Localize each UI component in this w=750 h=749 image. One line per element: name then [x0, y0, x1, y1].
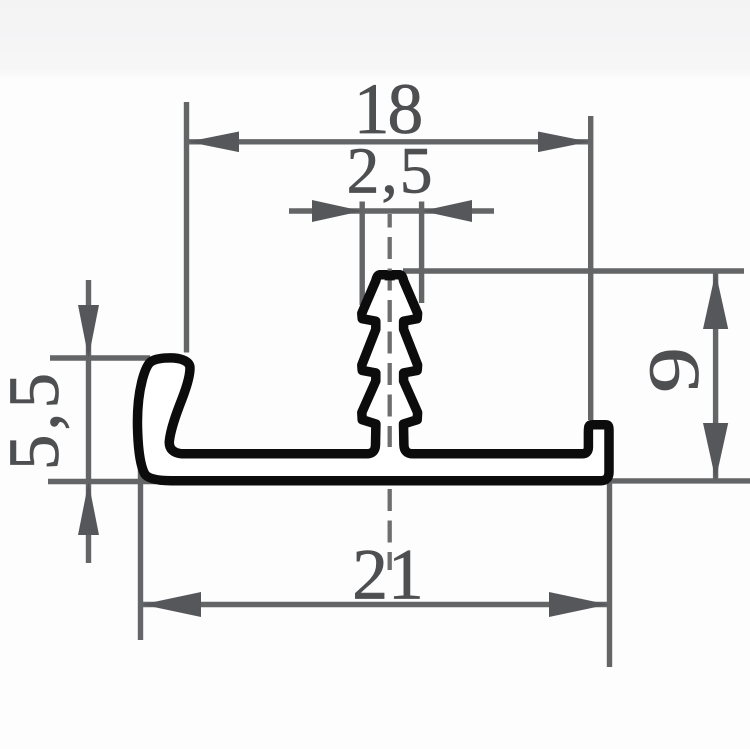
dimension line 2,5	[289, 208, 494, 213]
svg-text:9: 9	[635, 347, 714, 393]
arrowhead right of dim 21	[549, 592, 608, 617]
dimension line 21	[141, 602, 610, 607]
arrowhead right of dim 2,5	[422, 200, 472, 222]
extension line right of dim 18	[588, 116, 593, 420]
arrowhead left of dim 18	[188, 132, 239, 153]
arrowhead bottom of dim 5,5	[78, 482, 99, 535]
svg-text:2,5: 2,5	[347, 136, 435, 208]
dimension line 18	[187, 139, 591, 144]
extension line left of dim 21	[138, 466, 143, 640]
arrowhead top of dim 9	[703, 272, 728, 329]
reference line bottom of dim 5,5	[48, 479, 156, 484]
patch: keep profile cap solid where centerline crosses	[385, 271, 395, 281]
extension line right of dim 21	[607, 481, 612, 667]
svg-text:21: 21	[352, 536, 424, 615]
extension line left of dim 18	[184, 102, 189, 353]
reference line top of dim 5,5	[50, 355, 150, 360]
dimension line 5,5	[86, 280, 91, 563]
extension line left of dim 2,5	[360, 202, 365, 306]
centerline (dashed axis, upper part)	[388, 214, 392, 447]
arrowhead bottom of dim 9	[703, 423, 728, 480]
arrowhead left of dim 2,5	[312, 200, 362, 222]
reference line bottom of dim 9	[607, 478, 750, 483]
arrowhead left of dim 21	[142, 592, 201, 617]
dimension line 9	[713, 271, 718, 481]
svg-text:5,5: 5,5	[0, 369, 74, 470]
arrowhead right of dim 18	[538, 132, 589, 153]
centerline (dashed axis, lower part)	[388, 489, 392, 570]
arrowhead top of dim 5,5	[78, 305, 99, 358]
reference line top of dim 9	[403, 268, 744, 273]
profile outline (aluminium extrusion cross-section)	[137, 275, 609, 481]
extension line right of dim 2,5	[419, 202, 424, 304]
